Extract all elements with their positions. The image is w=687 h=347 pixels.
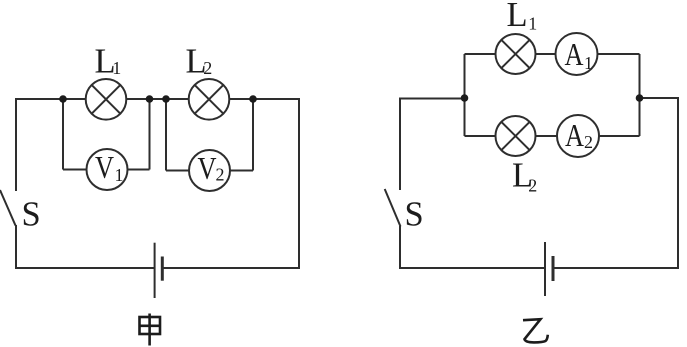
svg-text:1: 1 [112,58,121,78]
svg-text:1: 1 [528,14,537,34]
svg-text:2: 2 [528,176,537,196]
svg-text:S: S [405,196,424,234]
svg-text:A: A [565,117,584,153]
svg-text:S: S [22,196,41,234]
svg-text:V: V [198,150,217,186]
svg-text:V: V [95,149,114,185]
svg-text:2: 2 [584,132,593,152]
svg-text:2: 2 [216,165,225,185]
svg-text:1: 1 [584,53,593,73]
svg-text:L: L [507,0,528,34]
svg-text:A: A [565,36,584,72]
svg-text:1: 1 [115,165,124,185]
svg-text:2: 2 [203,58,212,78]
